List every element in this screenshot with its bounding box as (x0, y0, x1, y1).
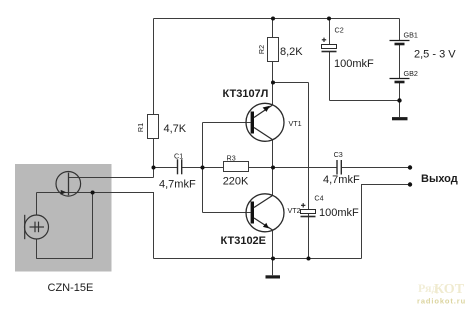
svg-text:radiokot.ru: radiokot.ru (417, 297, 466, 306)
svg-text:КОТ: КОТ (434, 282, 465, 297)
